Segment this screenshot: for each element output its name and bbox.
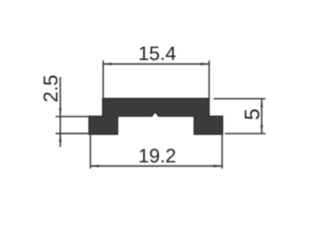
dim 15.4: arrow left [103, 63, 112, 65]
dim 2.5: label [43, 76, 57, 102]
dim 15.4: extension line left [102, 61, 104, 99]
dim 19.2: arrow right [214, 165, 223, 167]
dim 5: dimension line [261, 99, 263, 134]
dim 2.5: arrow down (outside, above) [59, 108, 61, 117]
dim 5: arrow up [261, 99, 263, 108]
dim 5: label [245, 109, 260, 119]
dim 2.5: extension line top [56, 116, 90, 118]
dim 19.2: extension line right [221, 135, 223, 169]
dim 15.4: extension line right [208, 61, 210, 99]
dim 15.4: arrow right [201, 63, 210, 65]
dim 5: extension line top [214, 98, 266, 100]
dim 19.2: arrow left [90, 165, 99, 167]
dim 2.5: arrow up (outside, below) [59, 134, 61, 142]
dim 5: arrow down [261, 125, 263, 134]
dim 19.2: label [140, 149, 175, 163]
dim 15.4: dimension line [103, 63, 209, 65]
profile cross-section [89, 99, 223, 135]
dim 5: extension line bottom [225, 133, 266, 135]
dim 19.2: extension line left [89, 135, 91, 169]
dim 15.4: label [140, 47, 176, 61]
dim 2.5: extension line bottom [56, 133, 90, 135]
dim 2.5: dimension line [59, 77, 61, 147]
dim 19.2: dimension line [90, 165, 222, 167]
